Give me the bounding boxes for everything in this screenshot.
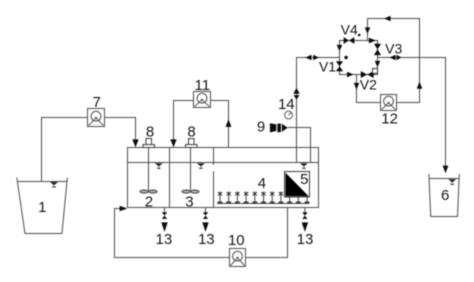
svg-text:8: 8: [187, 123, 195, 140]
svg-text:12: 12: [381, 111, 398, 128]
svg-text:5: 5: [300, 171, 308, 188]
svg-text:6: 6: [441, 187, 449, 204]
svg-text:14: 14: [278, 96, 295, 113]
svg-text:3: 3: [185, 193, 193, 210]
svg-text:13: 13: [198, 231, 215, 248]
svg-text:2: 2: [145, 193, 153, 210]
svg-text:V3: V3: [385, 40, 402, 56]
svg-text:V1: V1: [319, 59, 336, 75]
svg-text:8: 8: [146, 123, 154, 140]
svg-text:V4: V4: [341, 22, 358, 38]
svg-text:V2: V2: [360, 77, 377, 93]
svg-text:7: 7: [93, 94, 101, 111]
svg-text:13: 13: [156, 231, 173, 248]
svg-text:11: 11: [195, 77, 211, 94]
svg-text:1: 1: [38, 199, 46, 216]
svg-text:4: 4: [258, 175, 266, 192]
svg-text:13: 13: [297, 231, 314, 248]
svg-text:10: 10: [228, 232, 245, 249]
svg-text:9: 9: [257, 118, 265, 135]
